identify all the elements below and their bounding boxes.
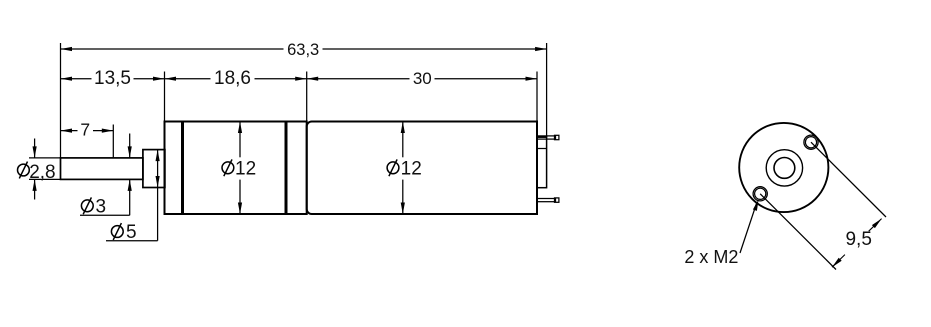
- svg-text:30: 30: [413, 69, 432, 88]
- svg-text:2,8: 2,8: [29, 162, 55, 183]
- svg-text:12: 12: [235, 159, 256, 180]
- svg-text:12: 12: [401, 159, 422, 180]
- svg-text:63,3: 63,3: [287, 41, 319, 59]
- svg-text:13,5: 13,5: [94, 68, 131, 89]
- svg-text:3: 3: [96, 197, 107, 218]
- svg-text:7: 7: [80, 120, 90, 140]
- svg-text:5: 5: [126, 222, 137, 243]
- svg-text:2 x M2: 2 x M2: [684, 247, 738, 267]
- svg-text:18,6: 18,6: [214, 68, 251, 89]
- svg-text:9,5: 9,5: [845, 229, 871, 250]
